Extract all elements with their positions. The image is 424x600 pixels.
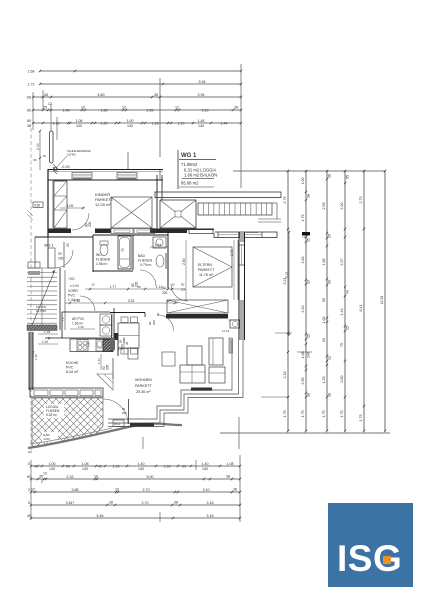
long base line y=433	[220, 432, 390, 434]
svg-text:12.00 m²: 12.00 m²	[95, 202, 111, 207]
svg-text:38: 38	[109, 500, 113, 504]
svg-text:3.94: 3.94	[198, 93, 205, 97]
svg-text:5: 5	[28, 501, 30, 505]
svg-text:T2: T2	[61, 317, 65, 321]
kueche counter band	[70, 339, 113, 352]
svg-text:1.10: 1.10	[74, 299, 81, 303]
balcony lower sill lines	[258, 218, 281, 220]
wohnen sofa horizontal	[180, 365, 225, 383]
left small dims near stairs	[31, 330, 58, 357]
svg-text:2: 2	[41, 480, 43, 484]
kinder right wall	[156, 175, 158, 232]
small box with circle right	[230, 320, 240, 328]
svg-text:2.00: 2.00	[36, 143, 40, 150]
svg-text:1.08: 1.08	[227, 462, 234, 466]
svg-text:PARKETT: PARKETT	[135, 384, 152, 388]
eltern wardrobe right strip	[237, 240, 239, 300]
short connector y=352	[297, 351, 312, 353]
right exterior wall of eltern/living	[239, 232, 245, 340]
chain F x=385	[384, 171, 386, 431]
svg-text:1.75: 1.75	[283, 411, 287, 418]
loggia door arc	[103, 399, 129, 424]
kinder door arc	[72, 213, 89, 230]
vorr door arc to kueche	[80, 296, 95, 311]
svg-text:1.20: 1.20	[101, 121, 108, 125]
svg-text:12: 12	[48, 102, 52, 106]
svg-text:WOZ: WOZ	[114, 422, 120, 426]
svg-text:2.20: 2.20	[340, 203, 344, 210]
svg-text:1.03: 1.03	[113, 464, 120, 468]
svg-text:1.75: 1.75	[359, 415, 363, 422]
svg-text:38: 38	[234, 105, 238, 109]
svg-text:25: 25	[327, 234, 331, 238]
short connector y=333	[275, 332, 292, 334]
svg-text:12: 12	[327, 356, 331, 360]
eltern label	[198, 263, 215, 277]
corridor dim 1.77 row	[85, 283, 186, 292]
svg-text:1.83: 1.83	[301, 257, 305, 264]
wohnen dining table	[187, 346, 202, 365]
kueche door to wohnen	[102, 358, 113, 379]
svg-text:2.39: 2.39	[147, 108, 154, 112]
svg-text:1.03: 1.03	[164, 464, 171, 468]
kinder bed with X	[111, 197, 152, 228]
svg-text:12: 12	[175, 105, 179, 109]
bad room label	[138, 254, 153, 267]
terrain curve inner line	[30, 428, 112, 444]
svg-text:1.48: 1.48	[63, 108, 70, 112]
svg-text:-0.03: -0.03	[43, 437, 50, 441]
svg-text:10: 10	[115, 487, 119, 491]
svg-text:38: 38	[327, 174, 331, 178]
corner bench diagonal	[97, 374, 113, 390]
dim 90/200 + 2.50 right of kueche	[118, 338, 130, 354]
svg-text:25: 25	[306, 238, 310, 242]
left wall boxes mid	[28, 262, 40, 275]
svg-text:43: 43	[345, 290, 349, 294]
extension line right of top dims	[240, 64, 242, 188]
svg-text:200: 200	[58, 257, 64, 261]
svg-text:25: 25	[306, 334, 310, 338]
svg-text:1.10: 1.10	[178, 121, 185, 125]
svg-text:SCHLEUSENWAND: SCHLEUSENWAND	[67, 149, 91, 153]
svg-text:KÜCHE: KÜCHE	[66, 361, 79, 365]
vdim 5.21 outside right wall	[285, 231, 290, 336]
svg-text:10: 10	[81, 105, 85, 109]
svg-text:1.00: 1.00	[127, 119, 134, 123]
svg-text:1.18: 1.18	[53, 121, 60, 125]
balcony railing with balusters	[198, 203, 277, 219]
svg-text:4.79 m²: 4.79 m²	[140, 263, 152, 267]
svg-text:1.40: 1.40	[202, 462, 209, 466]
wall between bath and bad	[132, 235, 134, 270]
svg-text:1.29: 1.29	[322, 377, 326, 384]
svg-text:140: 140	[198, 124, 204, 128]
svg-text:48: 48	[27, 514, 31, 518]
bottom extension stubs	[31, 460, 196, 522]
svg-text:3.61⁵: 3.61⁵	[66, 501, 75, 505]
svg-text:200: 200	[88, 221, 92, 227]
svg-text:FLIESEN: FLIESEN	[138, 259, 153, 263]
svg-text:WG 1: WG 1	[44, 244, 54, 248]
svg-text:PVC: PVC	[66, 366, 74, 370]
bottom dim row 1	[31, 465, 240, 467]
svg-text:2: 2	[28, 488, 30, 492]
svg-text:2.37: 2.37	[340, 259, 344, 266]
svg-text:1.44: 1.44	[97, 358, 101, 364]
kueche right wall stub	[114, 333, 119, 356]
svg-text:1.72: 1.72	[28, 82, 35, 86]
svg-text:2.50: 2.50	[120, 344, 124, 350]
svg-text:63: 63	[182, 464, 186, 468]
level label -0.25 with leader	[53, 149, 90, 171]
kinder wardrobe with diagonals	[54, 181, 67, 228]
svg-text:12 14: 12 14	[222, 329, 229, 333]
svg-text:3.18: 3.18	[207, 501, 214, 505]
corridor dim row 1.10 / 3.33	[65, 299, 178, 304]
svg-text:60: 60	[33, 158, 37, 162]
svg-text:38: 38	[154, 93, 158, 97]
flur-wohnen wall	[110, 313, 145, 353]
kueche label	[66, 361, 79, 374]
svg-text:GF: GF	[28, 450, 32, 454]
svg-text:3.10: 3.10	[202, 108, 209, 112]
svg-text:1.64: 1.64	[155, 243, 161, 247]
svg-text:16,5/30: 16,5/30	[36, 309, 46, 313]
eltern top window band	[187, 230, 277, 238]
svg-text:8.44 m²: 8.44 m²	[66, 370, 79, 374]
svg-text:205: 205	[122, 411, 127, 415]
svg-text:93: 93	[322, 338, 326, 342]
small box WOZ below wall	[113, 420, 124, 427]
eltern bed (triangle symbol)	[193, 247, 232, 287]
dimension row 3 (60 38 4.80 38 3.94)	[33, 96, 241, 98]
svg-text:200: 200	[181, 288, 186, 292]
svg-text:2.75: 2.75	[359, 197, 363, 204]
svg-text:90: 90	[162, 286, 166, 290]
svg-text:2.90: 2.90	[182, 258, 186, 265]
svg-text:1.08: 1.08	[76, 119, 83, 123]
eltern bottom closet with X	[167, 300, 228, 313]
svg-text:PVC: PVC	[68, 294, 76, 298]
svg-text:1.75: 1.75	[301, 215, 305, 222]
bottom dim row 5	[31, 517, 240, 519]
svg-text:2.01: 2.01	[122, 337, 126, 343]
svg-text:38: 38	[327, 393, 331, 397]
bottom dim row 4	[31, 504, 240, 506]
svg-text:65: 65	[137, 285, 141, 289]
svg-text:60: 60	[27, 119, 31, 123]
entrance door leaf and arc	[48, 243, 73, 268]
svg-text:140: 140	[49, 467, 55, 471]
AR washing machines	[100, 314, 112, 336]
svg-text:71.09m2: 71.09m2	[181, 162, 198, 167]
svg-text:10: 10	[94, 474, 98, 478]
bad door arc	[140, 270, 156, 286]
schleuse corridor wall	[60, 268, 65, 330]
chain A x=288	[287, 171, 289, 431]
svg-text:90: 90	[181, 283, 185, 287]
svg-text:60: 60	[27, 108, 31, 112]
svg-text:25: 25	[43, 105, 47, 109]
wall WC top	[93, 234, 168, 236]
svg-text:2.40: 2.40	[301, 306, 305, 313]
svg-text:1.11: 1.11	[156, 285, 162, 289]
loggia label	[44, 404, 64, 418]
short vertical x=143 below curve	[142, 437, 144, 449]
svg-text:12.91: 12.91	[380, 296, 384, 305]
bad sink	[156, 253, 166, 269]
svg-text:1.58: 1.58	[322, 259, 326, 266]
WC toilet	[100, 241, 108, 256]
small box label E30 on left wall	[33, 202, 43, 208]
dining table with chairs	[118, 317, 139, 354]
dimension row 1 (1.68)	[40, 70, 241, 72]
svg-text:2.59: 2.59	[322, 203, 326, 210]
wall bad/eltern	[167, 232, 169, 288]
svg-text:1.77: 1.77	[110, 285, 117, 289]
svg-text:60: 60	[166, 299, 170, 303]
WC left wall	[92, 235, 94, 272]
svg-text:38: 38	[174, 500, 178, 504]
kinder room left wall	[48, 169, 53, 237]
short connector y=232 right of wall	[246, 232, 258, 234]
svg-text:1.75: 1.75	[340, 411, 344, 418]
left property boundary line (dashed)	[27, 128, 33, 452]
eltern-wohnen dividing wall	[166, 314, 245, 320]
chain D x=345	[344, 171, 346, 431]
AR label	[61, 317, 95, 329]
svg-text:ELTERN: ELTERN	[198, 263, 212, 267]
svg-text:1.40: 1.40	[34, 354, 38, 360]
svg-text:1.80: 1.80	[101, 108, 108, 112]
svg-text:75: 75	[340, 343, 344, 347]
svg-text:1.75: 1.75	[301, 411, 305, 418]
svg-text:1.09: 1.09	[67, 204, 74, 208]
svg-text:AR PVC: AR PVC	[72, 317, 85, 321]
svg-text:8.41: 8.41	[359, 305, 363, 312]
svg-text:38: 38	[306, 393, 310, 397]
svg-text:1.40: 1.40	[78, 325, 84, 329]
svg-text:12: 12	[43, 471, 47, 475]
svg-text:90: 90	[322, 298, 326, 302]
svg-text:12: 12	[301, 234, 305, 238]
svg-text:25: 25	[345, 326, 349, 330]
svg-text:38: 38	[233, 487, 237, 491]
balcony terrace slab with X	[160, 200, 196, 228]
stair bottom hatched strip	[27, 325, 57, 331]
svg-text:1.44: 1.44	[221, 121, 228, 125]
kueche fridge dark hatched	[103, 340, 113, 352]
svg-text:2.70: 2.70	[230, 249, 234, 256]
svg-text:10: 10	[306, 280, 310, 284]
wohnen sofa vertical	[209, 338, 223, 365]
kueche sink	[96, 340, 103, 352]
svg-text:25.36 m²: 25.36 m²	[136, 390, 151, 394]
wohnen rug	[162, 352, 175, 366]
bad washing machine	[153, 237, 166, 248]
svg-text:3.60: 3.60	[340, 376, 344, 383]
svg-text:90: 90	[66, 243, 70, 247]
loggia hatched area	[32, 398, 103, 448]
svg-text:10: 10	[91, 283, 95, 287]
wohnen door from flur	[148, 313, 174, 331]
kueche top wall	[45, 337, 114, 339]
radiator right top of wohnen	[222, 329, 233, 353]
svg-text:1.00: 1.00	[301, 178, 305, 185]
kinder room top exterior wall with windows	[48, 170, 163, 181]
dimension row 2 (1.72 / 3.94)	[40, 83, 241, 85]
svg-text:3.33: 3.33	[128, 299, 135, 303]
svg-text:12: 12	[31, 487, 35, 491]
svg-text:50: 50	[43, 154, 47, 158]
chain C x=327	[326, 171, 328, 431]
svg-text:2.18: 2.18	[283, 372, 287, 379]
svg-text:200: 200	[152, 320, 156, 325]
wc bottom wall	[93, 270, 133, 272]
svg-text:50: 50	[66, 464, 70, 468]
vertical extension x=239 bottom	[238, 417, 240, 449]
svg-text:2.75: 2.75	[283, 197, 287, 204]
svg-text:1.43: 1.43	[340, 309, 344, 316]
wohnen label	[135, 378, 152, 394]
svg-text:75: 75	[121, 248, 125, 252]
stepped building edge polyline inner	[108, 340, 232, 419]
svg-text:140: 140	[138, 467, 144, 471]
svg-text:1.60: 1.60	[87, 341, 91, 347]
svg-text:90: 90	[58, 252, 62, 256]
svg-text:+SG: +SG	[68, 277, 75, 281]
svg-text:E30: E30	[35, 204, 41, 208]
bathtub	[118, 236, 131, 269]
svg-text:± 0.00: ± 0.00	[70, 284, 79, 288]
svg-text:WG 1: WG 1	[181, 153, 197, 159]
svg-text:38: 38	[226, 474, 230, 478]
svg-text:140: 140	[306, 352, 310, 358]
svg-text:FLIESEN: FLIESEN	[96, 258, 111, 262]
svg-text:200: 200	[162, 291, 168, 295]
extension line x=128	[127, 152, 129, 169]
svg-text:38: 38	[44, 93, 48, 97]
loggia lower label	[42, 432, 58, 442]
svg-text:140: 140	[76, 124, 82, 128]
svg-text:38: 38	[27, 124, 31, 128]
svg-text:38: 38	[306, 194, 310, 198]
hall/corridor inner walls	[35, 237, 64, 268]
svg-text:5: 5	[28, 462, 30, 466]
extension stubs at left steps	[42, 90, 44, 110]
bad dim 1.64	[150, 243, 168, 247]
svg-text:1.48: 1.48	[198, 119, 205, 123]
svg-text:30: 30	[327, 280, 331, 284]
svg-text:48⁵: 48⁵	[34, 464, 40, 468]
dimension row 4 (60 25 12 1.48 10 1.80 12 2.39 12 3.10 38)	[33, 109, 241, 111]
svg-text:200: 200	[106, 364, 110, 370]
bottom exterior wall with window band kueche	[30, 388, 103, 397]
svg-text:3.94: 3.94	[199, 80, 206, 84]
window strip in step wall upper	[191, 388, 212, 391]
svg-text:5.46: 5.46	[97, 514, 104, 518]
svg-text:140: 140	[202, 467, 208, 471]
svg-text:2.33: 2.33	[67, 475, 74, 479]
kinder room label	[95, 192, 114, 207]
svg-text:1.00: 1.00	[49, 462, 56, 466]
svg-text:1.66 m2 BALKON: 1.66 m2 BALKON	[184, 173, 217, 178]
bottom dim row 2	[31, 478, 240, 480]
svg-text:2.70: 2.70	[143, 488, 150, 492]
horizontal line y=397 right	[261, 396, 289, 398]
svg-text:1.18: 1.18	[44, 330, 50, 334]
hall top wall	[35, 236, 93, 238]
ISG logo	[328, 503, 413, 587]
svg-text:3.10: 3.10	[203, 488, 210, 492]
bottom dim row 3	[31, 491, 240, 493]
svg-text:1.60: 1.60	[322, 317, 326, 324]
svg-text:ISG: ISG	[337, 538, 402, 579]
stepped building edge polyline mid	[108, 340, 239, 423]
stairs	[27, 268, 57, 330]
svg-text:1.68: 1.68	[28, 69, 35, 73]
svg-text:1.56 m²: 1.56 m²	[96, 262, 108, 266]
svg-text:140: 140	[82, 467, 88, 471]
svg-text:1.18: 1.18	[152, 121, 159, 125]
svg-text:2.55: 2.55	[301, 378, 305, 385]
svg-text:6.33 m²: 6.33 m²	[46, 413, 57, 417]
vorr labels	[68, 277, 80, 302]
balcony outer edge band	[155, 192, 281, 198]
svg-text:5.21: 5.21	[283, 278, 287, 285]
svg-text:3.88: 3.88	[72, 488, 79, 492]
svg-text:1.75: 1.75	[322, 411, 326, 418]
svg-text:4.80: 4.80	[98, 93, 105, 97]
svg-text:1.10: 1.10	[42, 340, 48, 344]
svg-text:12: 12	[122, 105, 126, 109]
svg-text:10: 10	[171, 283, 175, 287]
chain E x=364	[363, 171, 365, 431]
dimension row 5 (60/38 1.18 1.08 1.20 1.00 1.18 1.10 1.48 1.44)	[33, 122, 241, 124]
stepped building edge polyline outer	[108, 340, 243, 427]
svg-text:1.08: 1.08	[82, 462, 89, 466]
svg-text:85.08 m2: 85.08 m2	[181, 181, 199, 186]
svg-text:1.40: 1.40	[138, 462, 145, 466]
eltern interior vdim 2.90	[182, 240, 186, 300]
window strip in step wall lower	[130, 423, 154, 427]
svg-text:140: 140	[127, 124, 133, 128]
svg-text:150 MZ: 150 MZ	[67, 153, 76, 157]
corner hatch at chimney base	[53, 164, 58, 174]
kueche counter: stove	[77, 340, 91, 352]
bottom extension line right	[239, 455, 241, 522]
svg-text:11.78 m²: 11.78 m²	[199, 273, 214, 277]
svg-text:PARKETT: PARKETT	[198, 268, 215, 272]
svg-text:BAD: BAD	[138, 254, 146, 258]
svg-text:5.00: 5.00	[147, 475, 154, 479]
wall below balcony (dark)	[48, 229, 214, 234]
kinder interior dim 1.09	[60, 204, 85, 209]
WG 1 info block	[178, 150, 217, 189]
chimney above kinder corner	[50, 131, 54, 163]
WC label	[96, 253, 111, 266]
kueche vdim 1.44	[97, 354, 101, 370]
svg-text:VORR: VORR	[68, 289, 78, 293]
top connector of right chains	[233, 170, 385, 172]
eltern vdim 2.70 right	[230, 240, 234, 300]
svg-text:55: 55	[345, 175, 349, 179]
AR room walls	[62, 308, 114, 338]
svg-text:60: 60	[27, 475, 31, 479]
svg-text:WC: WC	[96, 253, 102, 257]
eltern door arc	[171, 284, 188, 301]
